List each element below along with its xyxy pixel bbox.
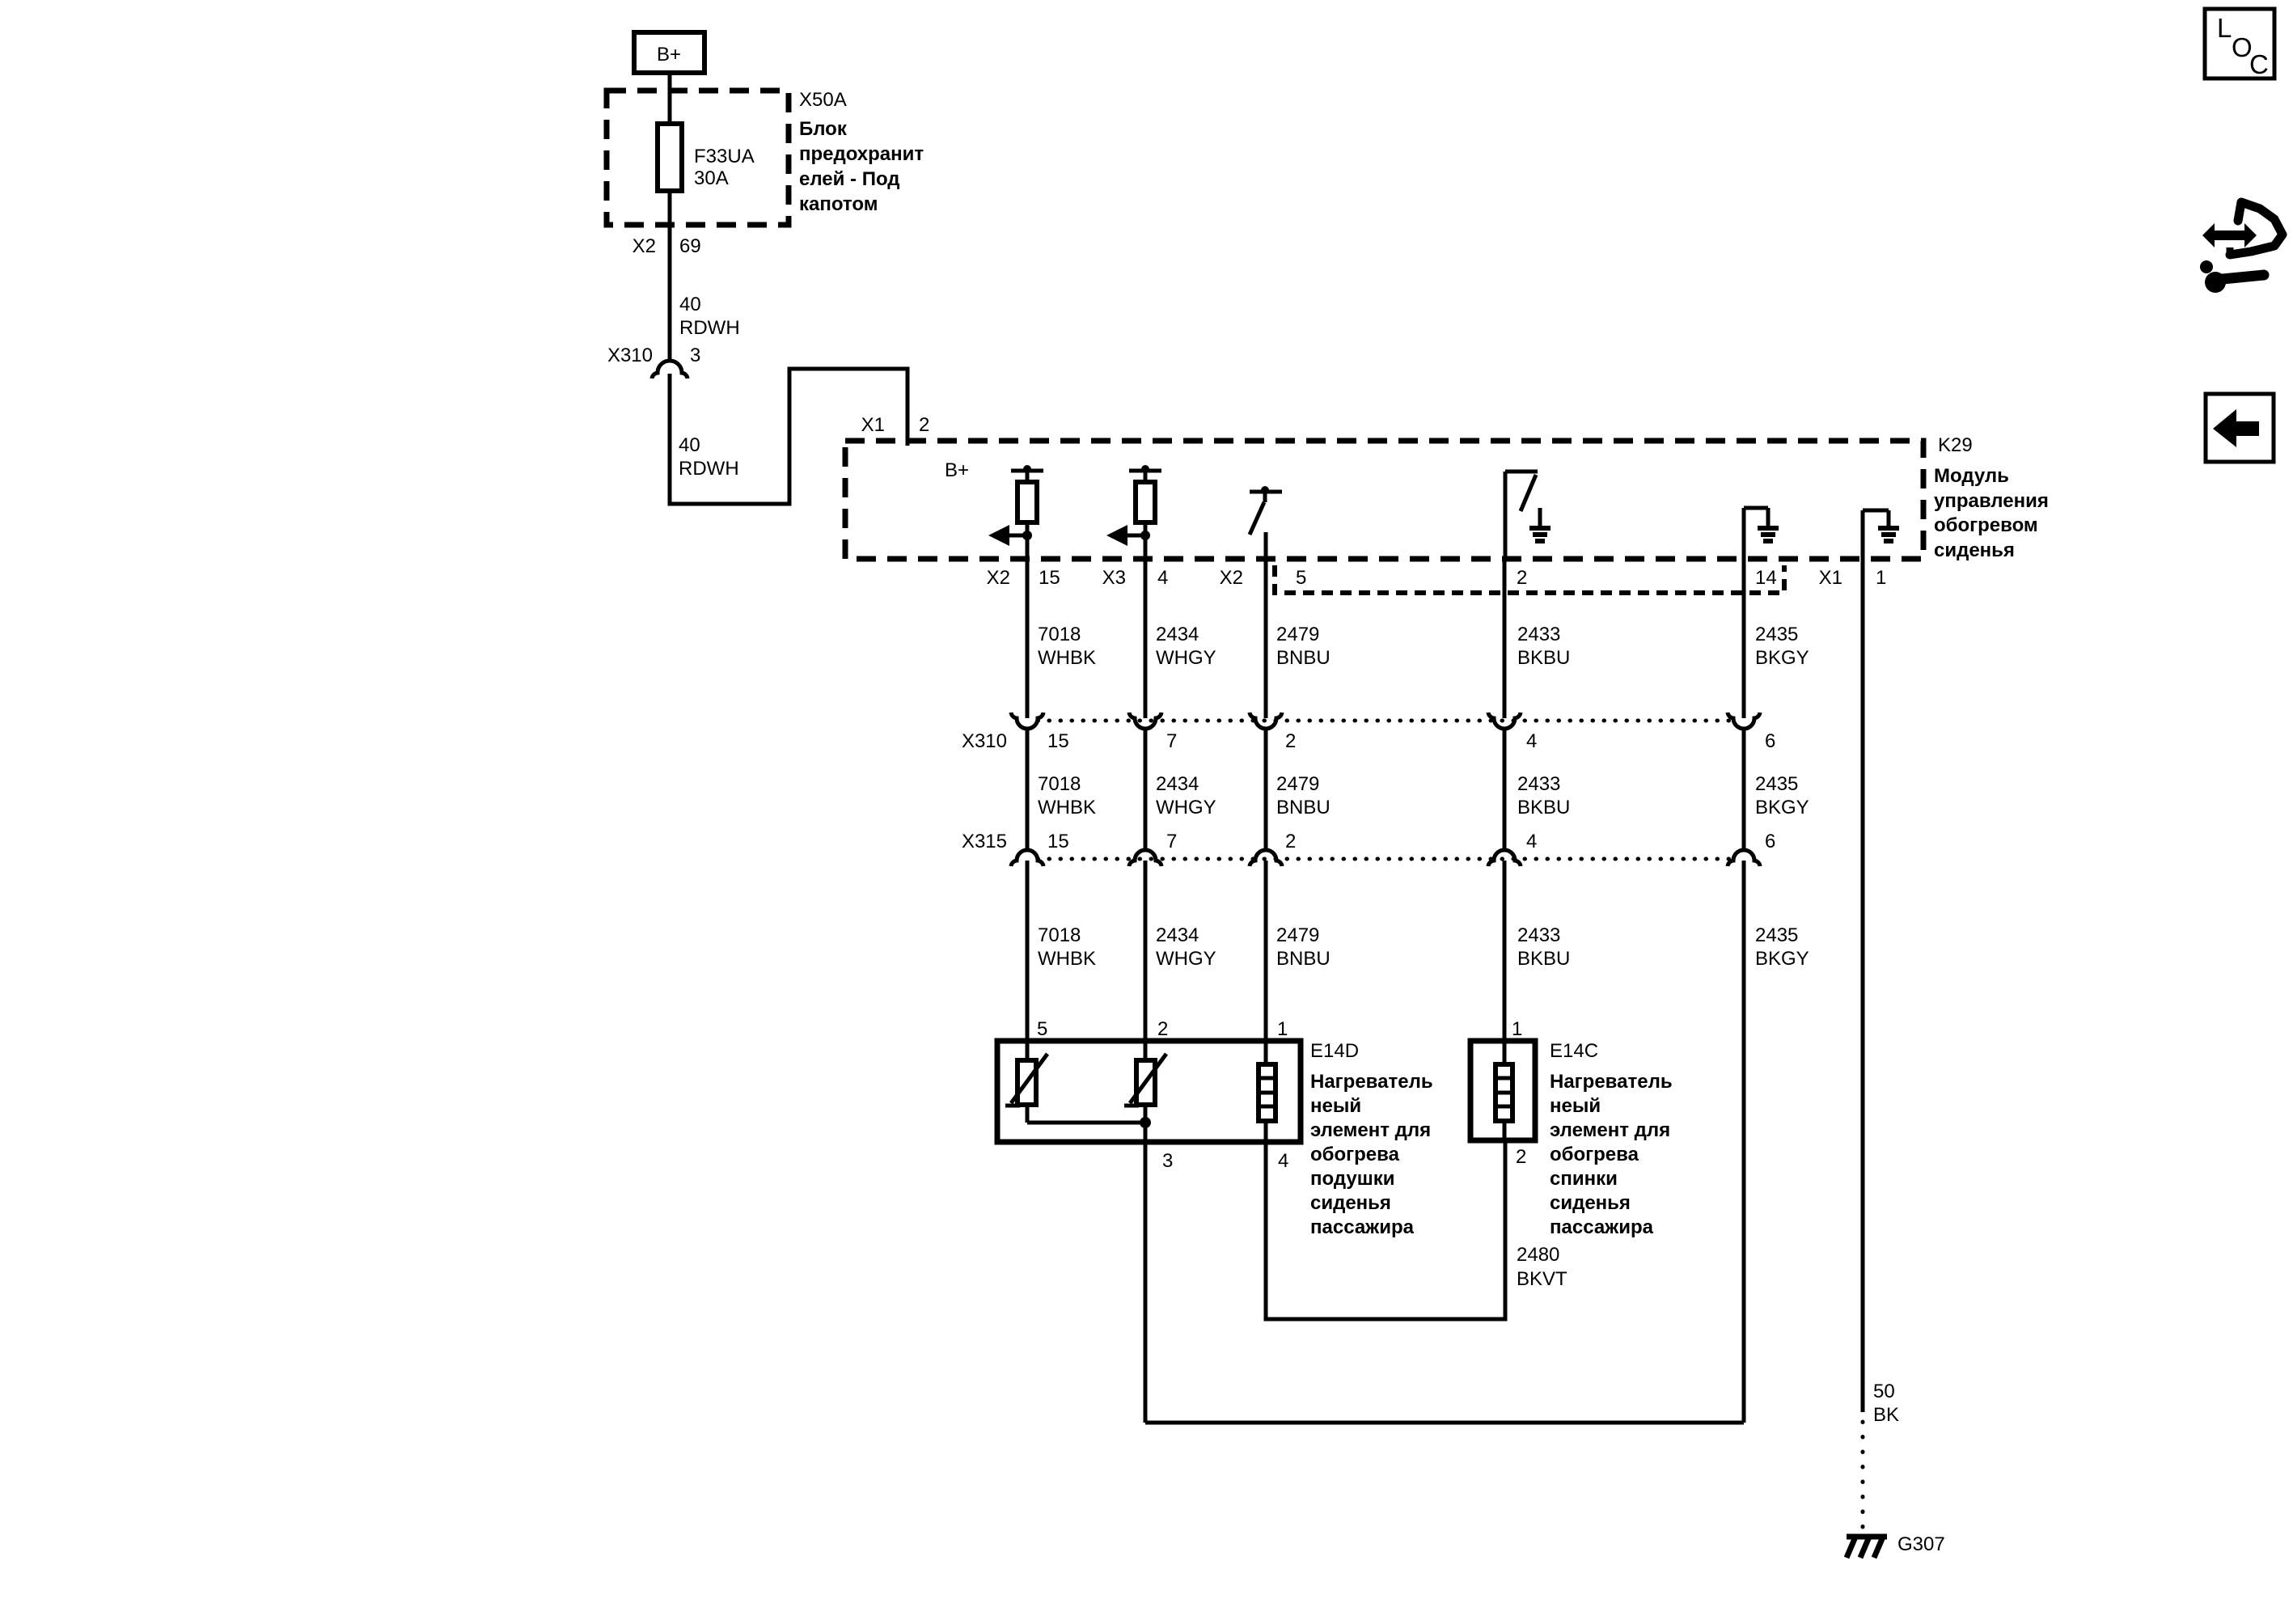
svg-text:2435: 2435 — [1755, 924, 1798, 946]
svg-text:капотом: капотом — [799, 193, 878, 215]
svg-text:2: 2 — [1157, 1018, 1168, 1040]
connector X315 pin 6 — [1728, 850, 1760, 866]
svg-text:7: 7 — [1166, 730, 1177, 752]
svg-text:B+: B+ — [657, 44, 681, 66]
wire through fuse — [668, 124, 672, 191]
connector X310 pin 3 inline — [652, 361, 687, 379]
connector X315 pin 7 — [1129, 850, 1161, 866]
svg-text:X50A: X50A — [799, 89, 847, 111]
svg-text:F33UA: F33UA — [694, 146, 755, 167]
thermistor 1 in E14D — [1005, 1054, 1047, 1123]
svg-text:BNBU: BNBU — [1276, 647, 1331, 669]
wire 2435 BKGY X310 to X315 — [1742, 729, 1746, 850]
E14C heater box — [1470, 1041, 1535, 1140]
wire 2434 WHGY K29 to X310 — [1144, 559, 1148, 718]
svg-text:3: 3 — [1162, 1150, 1173, 1172]
heating element in E14C — [1496, 1064, 1512, 1140]
fuse F33UA 30A — [658, 124, 682, 191]
wire 2433 BKBU X310 to X315 — [1503, 729, 1507, 850]
connector X310 pin 6 — [1728, 713, 1760, 729]
connector X310 pin 7 — [1129, 713, 1161, 729]
wire 40 RDWH X310 to K29 — [670, 369, 907, 504]
svg-text:Нагреватель: Нагреватель — [1550, 1071, 1673, 1093]
svg-text:2479: 2479 — [1276, 624, 1319, 645]
svg-text:X2: X2 — [632, 235, 656, 257]
E14D heater box — [997, 1041, 1301, 1142]
svg-text:2433: 2433 — [1517, 773, 1560, 795]
fuse block X50A dashed box — [607, 91, 789, 225]
svg-text:7018: 7018 — [1038, 624, 1081, 645]
connector row X310 dotted line — [1038, 719, 1733, 723]
wire 2479 BNBU X315 to E14D — [1264, 861, 1268, 1064]
svg-text:40: 40 — [679, 294, 701, 315]
svg-text:K29: K29 — [1938, 434, 1973, 456]
svg-text:предохранит: предохранит — [799, 143, 924, 165]
svg-text:2479: 2479 — [1276, 773, 1319, 795]
svg-text:6: 6 — [1765, 831, 1775, 852]
svg-text:2433: 2433 — [1517, 624, 1560, 645]
svg-text:69: 69 — [679, 235, 701, 257]
svg-text:BNBU: BNBU — [1276, 797, 1331, 818]
svg-text:2434: 2434 — [1156, 924, 1199, 946]
svg-text:7018: 7018 — [1038, 924, 1081, 946]
K29 module dashed box — [845, 441, 1923, 559]
connector X315 pin 2 — [1250, 850, 1282, 866]
svg-text:L: L — [2217, 13, 2232, 43]
svg-text:5: 5 — [1296, 567, 1306, 589]
connector X315 pin 15 — [1011, 850, 1043, 866]
svg-text:X310: X310 — [962, 730, 1007, 752]
svg-text:2: 2 — [919, 414, 929, 436]
svg-text:40: 40 — [679, 434, 700, 456]
wire 7018 WHBK K29 to X310 — [1026, 559, 1030, 718]
wire 2479 BNBU K29 to X310 — [1264, 532, 1268, 718]
wire B+ to fuse block — [668, 73, 672, 124]
svg-text:WHBK: WHBK — [1038, 647, 1096, 669]
svg-text:E14D: E14D — [1310, 1040, 1359, 1062]
svg-text:2: 2 — [1516, 1146, 1526, 1168]
svg-text:обогрева: обогрева — [1550, 1144, 1639, 1165]
connector X315 pin 4 — [1488, 850, 1521, 866]
svg-text:X1: X1 — [861, 414, 885, 436]
svg-text:элемент для: элемент для — [1550, 1119, 1670, 1141]
svg-text:2: 2 — [1285, 831, 1296, 852]
svg-text:2435: 2435 — [1755, 773, 1798, 795]
svg-text:2: 2 — [1285, 730, 1296, 752]
connector X2 bracket of K29 — [1275, 565, 1784, 593]
svg-text:2434: 2434 — [1156, 773, 1199, 795]
svg-text:BKGY: BKGY — [1755, 948, 1809, 970]
wire 2480 BKVT E14D pin4 to E14C pin2 — [1266, 1140, 1505, 1319]
svg-text:X1: X1 — [1819, 567, 1842, 589]
svg-text:RDWH: RDWH — [679, 458, 739, 480]
svg-text:4: 4 — [1526, 730, 1537, 752]
wire 2433 BKBU K29 to X310 — [1503, 559, 1507, 718]
svg-text:сиденья: сиденья — [1934, 539, 2015, 561]
svg-text:2435: 2435 — [1755, 624, 1798, 645]
heating element in E14D — [1259, 1064, 1276, 1142]
svg-text:RDWH: RDWH — [679, 317, 740, 339]
ground G307 — [1847, 1535, 1887, 1558]
svg-text:X2: X2 — [1220, 567, 1243, 589]
svg-text:обогрева: обогрева — [1310, 1144, 1400, 1165]
wire 2434 WHGY X315 to E14D — [1144, 861, 1148, 1060]
svg-text:элемент для: элемент для — [1310, 1119, 1431, 1141]
svg-text:неый: неый — [1310, 1095, 1361, 1117]
svg-text:4: 4 — [1278, 1150, 1288, 1172]
connector X310 pin 2 — [1250, 713, 1282, 729]
svg-text:WHGY: WHGY — [1156, 797, 1216, 818]
switch to ground inside K29 at pin 2 — [1505, 472, 1551, 559]
wire 2435 BKGY X315 to bottom rail — [1742, 861, 1746, 1423]
node B+ battery feed box — [634, 32, 704, 73]
thermistor 2 in E14D — [1124, 1054, 1166, 1142]
svg-text:2480: 2480 — [1517, 1244, 1559, 1266]
svg-text:WHBK: WHBK — [1038, 948, 1096, 970]
svg-text:спинки: спинки — [1550, 1168, 1618, 1190]
connector X310 pin 4 — [1488, 713, 1521, 729]
svg-text:BKGY: BKGY — [1755, 647, 1809, 669]
svg-text:сиденья: сиденья — [1310, 1192, 1391, 1214]
wire bottom rail pin3 to 2435 — [1145, 1421, 1744, 1425]
icon harness repair — [2200, 202, 2282, 293]
svg-text:сиденья: сиденья — [1550, 1192, 1631, 1214]
junction dot — [1140, 1117, 1151, 1128]
svg-text:BKBU: BKBU — [1517, 797, 1570, 818]
svg-text:управления: управления — [1934, 490, 2049, 512]
wire 7018 WHBK X310 to X315 — [1026, 729, 1030, 850]
svg-text:E14C: E14C — [1550, 1040, 1598, 1062]
wire dotted to G307 — [1861, 1422, 1865, 1535]
svg-text:2479: 2479 — [1276, 924, 1319, 946]
svg-text:2434: 2434 — [1156, 624, 1199, 645]
ground inside K29 at pin X1-1 — [1863, 510, 1899, 559]
svg-text:BNBU: BNBU — [1276, 948, 1331, 970]
svg-text:подушки: подушки — [1310, 1168, 1394, 1190]
sensor (thermistor feed) inside K29 at pin X3-4 — [1106, 465, 1161, 559]
wire 2434 WHGY X310 to X315 — [1144, 729, 1148, 850]
svg-text:1: 1 — [1512, 1018, 1522, 1040]
wire E14D pin3 down — [1144, 1142, 1148, 1423]
wire 2479 BNBU X310 to X315 — [1264, 729, 1268, 850]
svg-text:BK: BK — [1873, 1404, 1899, 1426]
connector row X315 dotted line — [1038, 857, 1733, 861]
svg-text:15: 15 — [1047, 730, 1069, 752]
svg-text:2: 2 — [1517, 567, 1527, 589]
wire 40 RDWH fuse to X310 — [668, 191, 672, 359]
svg-text:7018: 7018 — [1038, 773, 1081, 795]
svg-text:WHBK: WHBK — [1038, 797, 1096, 818]
svg-text:X3: X3 — [1102, 567, 1126, 589]
svg-text:неый: неый — [1550, 1095, 1601, 1117]
svg-text:14: 14 — [1755, 567, 1777, 589]
svg-text:X315: X315 — [962, 831, 1007, 852]
svg-text:X2: X2 — [987, 567, 1010, 589]
svg-text:7: 7 — [1166, 831, 1177, 852]
wire link thermistors — [1027, 1121, 1145, 1125]
svg-text:WHGY: WHGY — [1156, 948, 1216, 970]
svg-text:WHGY: WHGY — [1156, 647, 1216, 669]
svg-text:2433: 2433 — [1517, 924, 1560, 946]
wire 2435 BKGY K29 to X310 — [1742, 559, 1746, 718]
E14D pin labels top — [1037, 1018, 1522, 1040]
svg-text:5: 5 — [1037, 1018, 1047, 1040]
svg-text:3: 3 — [690, 345, 700, 366]
svg-text:пассажира: пассажира — [1310, 1216, 1415, 1238]
svg-text:BKGY: BKGY — [1755, 797, 1809, 818]
sensor (thermistor feed) inside K29 at pin X2-15 — [988, 465, 1043, 559]
ground inside K29 at pin 14 — [1744, 508, 1779, 559]
svg-text:G307: G307 — [1897, 1533, 1945, 1555]
svg-text:Модуль: Модуль — [1934, 465, 2009, 487]
svg-text:15: 15 — [1047, 831, 1069, 852]
wire 2433 BKBU X315 to E14C — [1503, 861, 1507, 1064]
svg-text:30A: 30A — [694, 167, 729, 189]
switch inside K29 at pin X2-5 — [1250, 486, 1282, 559]
svg-text:4: 4 — [1526, 831, 1537, 852]
svg-text:4: 4 — [1157, 567, 1168, 589]
svg-text:елей - Под: елей - Под — [799, 168, 900, 190]
wire 50 BK K29 X1-1 to G307 — [1861, 559, 1865, 1412]
svg-text:BKBU: BKBU — [1517, 647, 1570, 669]
svg-text:1: 1 — [1277, 1018, 1288, 1040]
wire 7018 WHBK X315 to E14D — [1026, 861, 1030, 1060]
svg-text:Нагреватель: Нагреватель — [1310, 1071, 1433, 1093]
svg-text:X310: X310 — [607, 345, 653, 366]
icon LOC box top right — [2205, 9, 2274, 79]
svg-text:BKBU: BKBU — [1517, 948, 1570, 970]
svg-text:1: 1 — [1876, 567, 1886, 589]
svg-text:B+: B+ — [945, 459, 969, 481]
svg-text:Блок: Блок — [799, 118, 848, 140]
svg-text:C: C — [2249, 49, 2269, 79]
svg-text:обогревом: обогревом — [1934, 514, 2038, 536]
svg-text:6: 6 — [1765, 730, 1775, 752]
svg-text:15: 15 — [1039, 567, 1060, 589]
K29 pin labels — [987, 567, 1887, 589]
svg-text:пассажира: пассажира — [1550, 1216, 1654, 1238]
connector X310 pin 15 — [1011, 713, 1043, 729]
svg-text:BKVT: BKVT — [1517, 1268, 1567, 1290]
icon back arrow box — [2206, 394, 2274, 462]
svg-text:50: 50 — [1873, 1381, 1895, 1402]
